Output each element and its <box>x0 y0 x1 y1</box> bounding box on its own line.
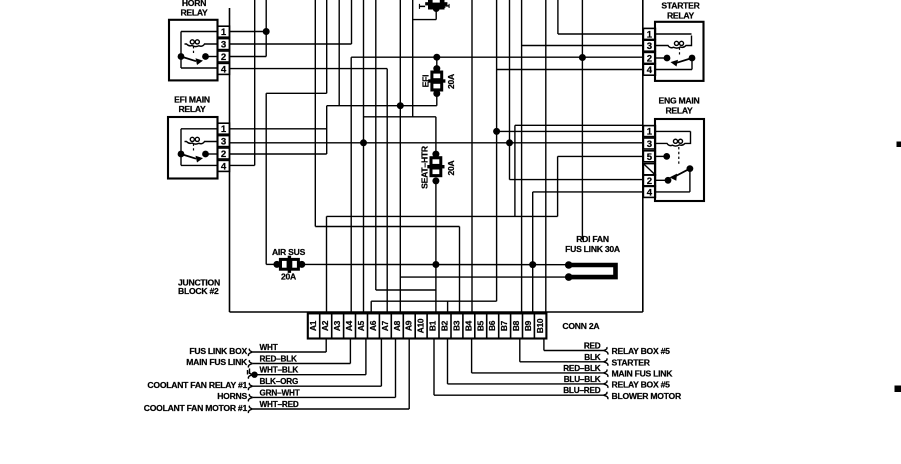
relay K2 EFI MAIN RELAY <box>168 94 230 178</box>
relay K3 STARTER RELAY <box>643 1 703 81</box>
svg-text:4: 4 <box>647 65 653 76</box>
label RELAY BOX #5 <box>612 346 671 356</box>
label BLK <box>584 353 601 362</box>
svg-text:BLU–RED: BLU–RED <box>563 386 601 395</box>
svg-text:CONN 2A: CONN 2A <box>562 321 599 331</box>
label COOLANT FAN RELAY #1 <box>147 380 247 390</box>
svg-text:20A: 20A <box>446 74 456 89</box>
print mark lower right <box>895 386 901 393</box>
wire: horn relay pin 4 to A7 column <box>230 69 388 314</box>
wire: ENG MAIN relay pin 1 from B6 column <box>497 130 644 132</box>
svg-text:STARTER: STARTER <box>612 358 651 368</box>
svg-text:BLU–BLK: BLU–BLK <box>564 375 601 384</box>
pin label B8 <box>511 320 521 331</box>
svg-text:A4: A4 <box>344 320 354 331</box>
svg-text:WHT–BLK: WHT–BLK <box>260 366 299 375</box>
svg-text:WHT: WHT <box>260 343 278 352</box>
svg-text:T: T <box>418 4 427 9</box>
svg-text:BLK: BLK <box>584 353 601 362</box>
relay K1 HORN RELAY <box>169 0 230 80</box>
junction: A8 column on EFI fuse rail <box>397 102 404 109</box>
label RED-BLK <box>260 355 298 364</box>
label BLU-RED <box>563 386 601 395</box>
wire: A9 tail to COOLANT FAN MOTOR #1 (WHT-RED) <box>248 339 409 414</box>
label WHT-RED <box>260 400 299 409</box>
svg-text:A10: A10 <box>416 318 426 333</box>
wire: B2 tail to RELAY BOX #5 (BLU-BLK) <box>448 339 608 388</box>
svg-text:2: 2 <box>221 149 226 160</box>
svg-text:A7: A7 <box>380 320 390 331</box>
svg-text:B6: B6 <box>487 320 497 331</box>
fuse F1 EFI 20A <box>421 57 456 105</box>
connector strip CONN 2A <box>308 313 547 338</box>
svg-text:GRN–WHT: GRN–WHT <box>260 388 300 397</box>
svg-text:MAIN FUS LINK: MAIN FUS LINK <box>186 357 248 367</box>
svg-text:B10: B10 <box>535 318 545 333</box>
label BLOWER MOTOR <box>612 391 682 401</box>
wire: B4 column x=473 <box>471 0 473 313</box>
label GRN-WHT <box>260 388 300 397</box>
svg-text:BLK–ORG: BLK–ORG <box>260 377 299 386</box>
wire: vertical x=254.7 from top to EFI MAIN pin 4 <box>230 0 255 165</box>
svg-text:MAIN FUS LINK: MAIN FUS LINK <box>612 369 674 379</box>
svg-text:A6: A6 <box>368 320 378 331</box>
wire: vertical x=412.7 top fuse to SEAT-HTR feed <box>412 0 414 117</box>
wire: riser x=266.2 to top edge <box>265 0 267 57</box>
pin label A8 <box>392 320 402 331</box>
wire: A8 column x=400.3 <box>399 0 401 313</box>
wire: horn relay pin 3 to riser x=351.5 up <box>230 0 352 44</box>
svg-text:FUS LINK 30A: FUS LINK 30A <box>565 244 620 254</box>
svg-text:A2: A2 <box>320 320 330 331</box>
svg-text:STARTER: STARTER <box>661 1 700 11</box>
svg-text:3: 3 <box>221 40 226 51</box>
wire: EFI MAIN relay pin 1 <box>230 128 327 130</box>
label JUNCTION BLOCK #2 <box>178 277 220 295</box>
junction: EFI fuse top on starter pin2 rail <box>433 54 440 61</box>
pin label B4 <box>463 320 473 331</box>
pin label A6 <box>368 320 378 331</box>
print mark upper right <box>897 142 901 148</box>
wire: starter relay pin 3 from B8 column <box>522 45 644 47</box>
label WHT <box>260 343 278 352</box>
wire: EFI MAIN relay pin 2 <box>230 153 327 155</box>
svg-text:2: 2 <box>647 53 652 64</box>
svg-text:B8: B8 <box>511 320 521 331</box>
svg-text:B4: B4 <box>463 320 473 331</box>
pin label B9 <box>523 320 533 331</box>
wire: horn relay pin 2 <box>230 56 267 58</box>
wire: staircase y=301 A6 to B2 <box>371 301 496 313</box>
svg-text:RED–BLK: RED–BLK <box>260 355 298 364</box>
wire: B1 tail to BLOWER MOTOR (BLU-RED) <box>434 339 608 400</box>
fusible link FL1 RDI FAN FUS LINK 30A <box>565 234 620 281</box>
label RED-BLK <box>563 364 601 373</box>
svg-text:B3: B3 <box>451 320 461 331</box>
wire: A4 tail to MAIN FUS LINK (RED-BLK) <box>248 339 350 368</box>
label BLK-ORG <box>260 377 299 386</box>
label BLU-BLK <box>564 375 601 384</box>
junction: ENG MAIN pin4 / B9 column on AIR SUS rail <box>529 261 536 268</box>
pin label B6 <box>487 320 497 331</box>
wire: B8 column x=521.6 <box>521 0 523 313</box>
svg-text:RELAY BOX #5: RELAY BOX #5 <box>612 380 671 390</box>
pin label B3 <box>451 320 461 331</box>
wire: pin3 bus y=142.8 EFI MAIN to ENG MAIN <box>230 142 644 144</box>
svg-text:2: 2 <box>221 52 226 63</box>
junction: B6 column on ENG MAIN pin 1 <box>493 0 500 301</box>
svg-text:RELAY: RELAY <box>667 10 695 20</box>
pin label B10 <box>535 318 545 333</box>
pin label A3 <box>332 320 342 331</box>
pin label B1 <box>428 320 438 331</box>
svg-text:BLOCK #2: BLOCK #2 <box>178 286 219 296</box>
svg-text:5: 5 <box>647 152 653 163</box>
wire: starter relay pin 1 riser x=557.9 <box>558 0 644 34</box>
pin label A9 <box>404 320 414 331</box>
junction: starter pin2 riser x=582.4 <box>579 0 586 240</box>
fuse F3 AIR SUS 20A (horizontal) <box>272 247 306 281</box>
splice symbol at WHT-BLK <box>248 369 258 378</box>
wire: A7 tail to COOLANT FAN RELAY #1 (BLK-ORG) <box>248 339 381 391</box>
svg-text:A3: A3 <box>332 320 342 331</box>
wire: EFI MAIN pins 1-2 riser x=326.7 <box>326 106 328 154</box>
svg-text:RELAY: RELAY <box>178 104 206 114</box>
svg-text:4: 4 <box>647 187 653 198</box>
svg-text:RED: RED <box>584 342 601 351</box>
pin label B7 <box>499 320 509 331</box>
wire: vertical x=375.8 from top, jog y=290 to B1 column <box>376 0 436 290</box>
pin label A2 <box>320 320 330 331</box>
label STARTER <box>612 358 651 368</box>
svg-text:1: 1 <box>443 3 452 8</box>
label RELAY BOX #5 <box>612 380 671 390</box>
wire: ENG MAIN relay pin 4 to B9 column <box>533 192 644 314</box>
wire: B4 tail to MAIN FUS LINK (RED-BLK) <box>472 339 608 377</box>
label FUS LINK BOX <box>189 346 247 356</box>
wire: A5 tail (WHT-BLK) <box>248 339 366 379</box>
wire: starter pin2 rail y=57.2 from x=351.2 <box>351 57 643 313</box>
wire: ENG MAIN relay pin 2 from B7 column <box>510 0 644 180</box>
pin label B2 <box>440 320 450 331</box>
label COOLANT FAN MOTOR #1 <box>144 403 248 413</box>
pin label A7 <box>380 320 390 331</box>
svg-text:20A: 20A <box>446 160 456 175</box>
svg-text:A8: A8 <box>392 320 402 331</box>
svg-text:COOLANT FAN MOTOR #1: COOLANT FAN MOTOR #1 <box>144 403 248 413</box>
svg-text:B7: B7 <box>499 320 509 331</box>
svg-text:3: 3 <box>647 41 652 52</box>
svg-text:3: 3 <box>647 139 652 150</box>
svg-text:RELAY BOX #5: RELAY BOX #5 <box>612 346 671 356</box>
pin label A4 <box>344 320 354 331</box>
wire: SEAT-HTR feed y=116.8 from x=363.5 <box>364 116 436 118</box>
wire: B10 column x=545.8 <box>545 0 547 313</box>
svg-text:FUS LINK BOX: FUS LINK BOX <box>189 346 247 356</box>
svg-text:RELAY: RELAY <box>665 105 693 115</box>
svg-text:4: 4 <box>221 161 227 172</box>
svg-text:B9: B9 <box>523 320 533 331</box>
label CONN 2A <box>562 321 599 331</box>
wire: AIR SUS output rail y=264.4 <box>302 263 569 265</box>
svg-text:WHT–RED: WHT–RED <box>260 400 299 409</box>
pin label A5 <box>356 320 366 331</box>
wire: vertical x=363.5 top to pin3 bus (A5 column below) <box>363 0 365 313</box>
svg-text:BLOWER MOTOR: BLOWER MOTOR <box>612 391 682 401</box>
fuse F2 SEAT-HTR 20A <box>419 117 455 265</box>
wire: B8 tail to STARTER (BLK) <box>520 339 608 366</box>
wire: ENG MAIN relay pin 5 <box>558 155 644 157</box>
junction block #2 outline <box>230 0 643 312</box>
pin label B5 <box>475 320 485 331</box>
svg-text:ENG MAIN: ENG MAIN <box>659 96 700 106</box>
junction: A5 column on pin3 bus <box>360 139 367 146</box>
svg-text:20A: 20A <box>281 272 296 282</box>
label WHT-BLK <box>260 366 299 375</box>
relay K4 ENG MAIN RELAY <box>643 96 704 201</box>
svg-text:RDI FAN: RDI FAN <box>576 234 609 244</box>
wire: AIR SUS left lead <box>266 263 277 265</box>
svg-text:HORNS: HORNS <box>217 391 247 401</box>
svg-text:1: 1 <box>647 29 653 40</box>
wire: node jog x=266.2 y=93.3 to x=326.7 <box>266 0 327 264</box>
wire: top fuse lead to riser x=412.8 <box>413 9 436 20</box>
svg-text:B5: B5 <box>475 320 485 331</box>
wire: B1 column below AIR SUS rail to strip <box>435 264 437 313</box>
wire: B8 inner column x=515.1 from y=125.3 <box>515 125 643 216</box>
svg-text:4: 4 <box>221 64 227 75</box>
wire: starter relay pin 4 from B6 column <box>497 69 644 71</box>
wire: B10 tail to RELAY BOX #5 (RED) <box>544 339 608 355</box>
svg-text:A9: A9 <box>404 320 414 331</box>
svg-text:COOLANT FAN RELAY #1: COOLANT FAN RELAY #1 <box>147 380 247 390</box>
junction: B7 column on pin3 bus <box>506 139 513 146</box>
pin label A10 <box>416 318 426 333</box>
wire: RDI link lower lead y=277.1 to A8 column <box>400 276 568 278</box>
pin label A1 <box>308 320 318 331</box>
label RED <box>584 342 601 351</box>
label MAIN FUS LINK <box>186 357 248 367</box>
wire: horn relay pin 1 to riser <box>230 31 267 33</box>
svg-text:3: 3 <box>221 137 226 148</box>
svg-text:B1: B1 <box>428 320 438 331</box>
svg-text:1: 1 <box>221 124 227 135</box>
svg-text:1: 1 <box>221 27 227 38</box>
wire: A8 tail to HORNS (GRN-WHT) <box>248 339 395 402</box>
svg-text:A5: A5 <box>356 320 366 331</box>
fuse F0 (top, partially cut) <box>418 0 452 12</box>
wire: staircase y=216.4 A2 to ENG MAIN pin5 riser <box>327 156 558 313</box>
junction: SEAT-HTR / B1 column on AIR SUS rail <box>432 261 439 268</box>
svg-text:2: 2 <box>647 176 652 187</box>
svg-text:RELAY: RELAY <box>180 8 208 18</box>
svg-text:RED–BLK: RED–BLK <box>563 364 601 373</box>
wire: EFI fuse bottom rail y=105.7 <box>327 105 437 107</box>
wire: vertical x=339.2 from top to EFI fuse bottom rail <box>338 0 340 106</box>
svg-text:1: 1 <box>647 127 653 138</box>
svg-text:A1: A1 <box>308 320 318 331</box>
label HORNS <box>217 391 247 401</box>
wire: vertical x=315.3 from top, jog at y=226.5 to B3 column <box>315 0 459 313</box>
wire: A2 tail to FUS LINK BOX (WHT) <box>248 339 326 357</box>
label MAIN FUS LINK <box>612 369 674 379</box>
junction: horn pin1/pin2 riser <box>263 28 270 35</box>
svg-text:B2: B2 <box>440 320 450 331</box>
svg-text:EFI MAIN: EFI MAIN <box>174 94 210 104</box>
